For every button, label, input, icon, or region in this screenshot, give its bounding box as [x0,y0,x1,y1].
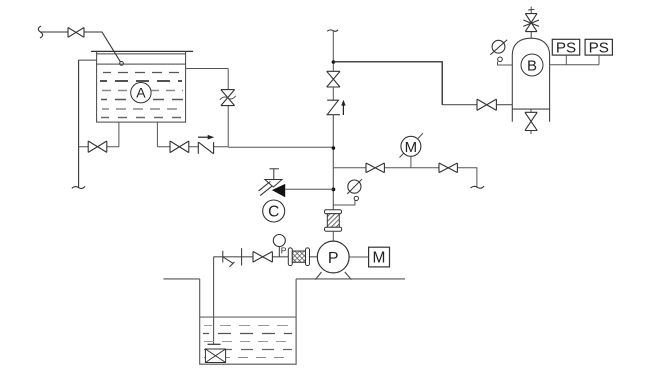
transfer pipe run [157,146,228,148]
node J1 [332,60,336,64]
tank A liquid dashes row4 [101,99,183,101]
tank A lid underside [97,53,186,55]
motor valve branch [333,168,477,188]
funnel stem [273,169,275,180]
valve V2 [88,141,107,152]
floor right [296,278,405,280]
valve V7 [366,163,384,173]
svg-text:P: P [328,250,339,267]
pit dashes row3 [204,341,292,343]
valve V6 vertical on riser [327,71,340,87]
suction coupling flanges [306,248,310,266]
drain slashes [259,182,272,196]
funnel [265,180,282,188]
svg-text:A: A [136,85,146,101]
suction pipe [214,257,318,344]
vessel B vent stem [530,7,532,39]
vessel B shell [512,38,549,122]
equalizer drop pipe [227,69,229,147]
pump discharge stem [332,231,334,241]
main riser upper [332,31,334,72]
tank A liquid dashes row3 [102,90,183,92]
pit walls [200,279,296,364]
gauge P2 [273,235,285,247]
valve V3 [170,141,189,153]
suction coupling hatch [292,251,305,262]
pit water line [200,316,296,318]
vessel B drain valve [530,109,532,134]
svg-text:B: B [527,57,537,74]
gauge PB elbow [498,62,513,66]
floor left [163,278,199,280]
pipe to main riser [228,146,333,148]
riser segment [332,115,334,210]
pipe break top-left [38,26,42,38]
valve V9 [253,252,272,263]
svg-text:PS: PS [556,40,576,57]
discharge coupling hatch [327,214,339,228]
pump shaft [349,256,369,258]
regulator arrow [342,105,344,116]
tank A liquid dashes row5 [102,108,182,110]
pipe to vessel B [333,62,512,105]
drain branch to funnel [285,188,333,190]
pressure switch PS2 [585,39,612,55]
flow arrow [198,136,209,138]
motor actuator M circle [401,136,421,156]
relief valve strike [523,20,539,26]
svg-text:M: M [405,139,418,156]
riser segment [332,87,334,100]
valve V4 vertical [221,90,235,106]
vent tick [528,8,535,11]
motor M box [369,247,390,267]
discharge coupling bottom flange [325,227,342,231]
actuator stem [410,156,412,168]
gauge P2 stem [278,247,280,257]
pump legs [315,272,351,280]
pipe break bottom-left [72,186,85,188]
pipe break right [471,186,485,188]
tank A outlet1 riser [118,122,120,147]
svg-text:P: P [281,246,287,256]
gauge PI1 nub [354,196,358,200]
PS signal lines [550,55,599,65]
svg-text:PS: PS [589,40,609,57]
tank A label circle A [131,83,151,103]
node label circle C [263,200,285,222]
tank A overflow stub [79,59,97,61]
vessel B label circle [521,54,543,76]
tank A lid [91,50,193,52]
pit dashes row1 [204,325,292,327]
valve V8 [439,163,457,173]
pit dashes row4 [204,349,292,351]
tank A outlet2 riser [156,122,158,147]
relief valve RV1 [525,14,537,32]
funnel stem tick [270,168,279,170]
valve V1 [68,28,84,38]
regulator Z [327,100,340,115]
pit dashes row5 [204,357,292,359]
gauge PB diagonal [490,40,507,55]
pressure switch PS1 [552,39,579,55]
valve V5 [477,99,496,110]
tank A equalizer stub [186,68,228,70]
pipe feed to tank A [41,32,121,62]
node J2 [332,146,336,150]
eductor solid triangle [272,184,285,197]
dip tube nozzle circle [120,62,124,66]
drain pipe run [79,146,119,148]
drain drop pipe [78,60,80,188]
gauge PB [492,40,505,53]
svg-text:C: C [268,204,279,221]
pump P [317,241,349,273]
gauge PI1 elbow [333,201,355,206]
valve V4 squiggle [220,96,236,100]
union tick [241,248,243,265]
motor actuator diagonal [400,133,424,157]
gauge PB nub [498,57,503,62]
slope symbol [223,251,235,267]
tank A liquid dashes row1 [103,72,182,74]
tank A liquid dashes row2 [100,80,182,82]
tank A neck walls [97,51,186,64]
check valve CV1 [198,142,213,154]
pipe break top-center [327,30,338,31]
tank A liquid dashes row6 [101,117,182,119]
svg-text:M: M [373,250,386,267]
gauge PI1 [348,180,361,193]
suction strainer bar [208,343,221,345]
tank A shell [97,64,186,122]
node J3 [332,188,336,192]
discharge coupling top flange [325,210,342,214]
pit dashes row2 [203,333,292,335]
foot valve [205,349,225,363]
